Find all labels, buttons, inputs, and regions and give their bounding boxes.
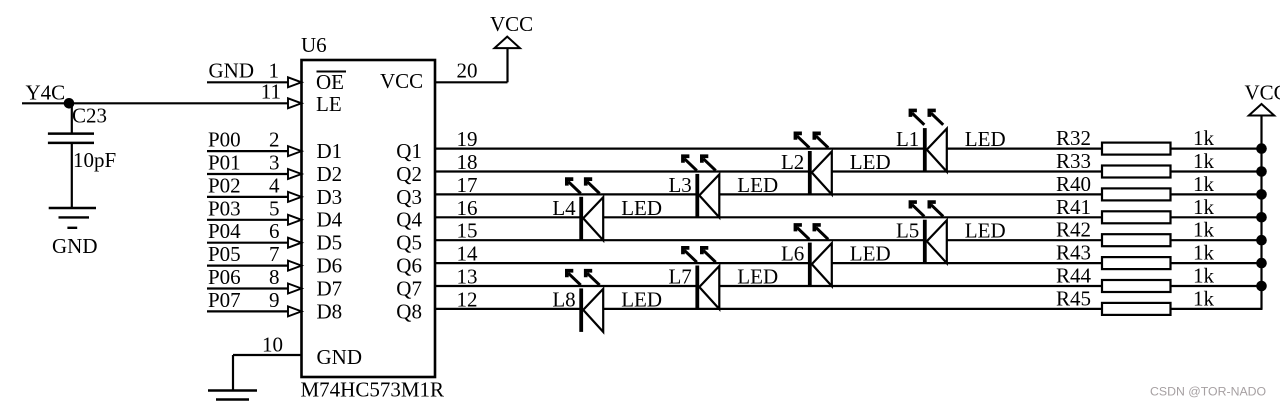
svg-text:17: 17 <box>457 173 478 197</box>
svg-text:1k: 1k <box>1193 172 1215 196</box>
svg-text:P05: P05 <box>208 242 241 266</box>
svg-text:R41: R41 <box>1056 195 1091 219</box>
svg-text:D6: D6 <box>317 254 343 278</box>
svg-text:VCC: VCC <box>1245 81 1280 105</box>
svg-text:1k: 1k <box>1193 286 1215 310</box>
svg-text:1k: 1k <box>1193 126 1215 150</box>
svg-text:7: 7 <box>269 242 280 266</box>
svg-text:11: 11 <box>261 80 281 104</box>
svg-text:15: 15 <box>457 219 478 243</box>
svg-text:U6: U6 <box>301 33 327 57</box>
svg-text:Q6: Q6 <box>396 254 422 278</box>
svg-text:LED: LED <box>965 127 1006 151</box>
svg-text:12: 12 <box>457 287 478 311</box>
svg-text:D2: D2 <box>317 162 343 186</box>
svg-text:GND: GND <box>52 234 98 258</box>
svg-text:R42: R42 <box>1056 218 1091 242</box>
svg-text:D1: D1 <box>317 139 343 163</box>
svg-text:L5: L5 <box>896 219 919 243</box>
svg-text:L1: L1 <box>896 127 919 151</box>
svg-text:R33: R33 <box>1056 149 1091 173</box>
svg-text:P00: P00 <box>208 128 241 152</box>
svg-text:LE: LE <box>316 92 342 116</box>
svg-text:5: 5 <box>269 196 280 220</box>
svg-text:Q5: Q5 <box>396 231 422 255</box>
svg-text:1k: 1k <box>1193 241 1215 265</box>
svg-text:L8: L8 <box>552 287 575 311</box>
svg-text:6: 6 <box>269 219 280 243</box>
svg-text:D5: D5 <box>317 231 343 255</box>
svg-text:GND: GND <box>317 345 363 369</box>
svg-text:C23: C23 <box>72 104 107 128</box>
svg-text:16: 16 <box>457 196 478 220</box>
svg-text:1k: 1k <box>1193 195 1215 219</box>
svg-text:D4: D4 <box>317 208 343 232</box>
svg-text:Y4C: Y4C <box>26 81 66 105</box>
svg-text:19: 19 <box>457 127 478 151</box>
svg-text:D8: D8 <box>317 299 343 323</box>
svg-text:LED: LED <box>850 150 891 174</box>
svg-text:R43: R43 <box>1056 241 1091 265</box>
svg-text:L2: L2 <box>781 150 804 174</box>
svg-text:L6: L6 <box>781 242 804 266</box>
svg-text:20: 20 <box>457 59 478 83</box>
svg-text:CSDN @TOR-NADO: CSDN @TOR-NADO <box>1150 385 1266 399</box>
svg-text:Q4: Q4 <box>396 208 422 232</box>
svg-text:LED: LED <box>850 242 891 266</box>
svg-text:R40: R40 <box>1056 172 1091 196</box>
svg-text:8: 8 <box>269 265 280 289</box>
svg-text:L3: L3 <box>668 173 691 197</box>
svg-text:1k: 1k <box>1193 149 1215 173</box>
svg-text:D7: D7 <box>317 276 343 300</box>
svg-text:Q2: Q2 <box>396 162 422 186</box>
svg-text:P04: P04 <box>208 219 241 243</box>
svg-text:LED: LED <box>621 196 662 220</box>
svg-text:Q8: Q8 <box>396 299 422 323</box>
svg-text:VCC: VCC <box>380 69 423 93</box>
svg-text:Q7: Q7 <box>396 276 422 300</box>
svg-text:L7: L7 <box>668 265 691 289</box>
svg-text:P07: P07 <box>208 288 241 312</box>
svg-text:P01: P01 <box>208 151 241 175</box>
svg-text:P02: P02 <box>208 173 241 197</box>
svg-text:P06: P06 <box>208 265 241 289</box>
svg-text:9: 9 <box>269 288 280 312</box>
svg-text:D3: D3 <box>317 185 343 209</box>
svg-text:2: 2 <box>269 128 280 152</box>
svg-text:1k: 1k <box>1193 218 1215 242</box>
svg-text:VCC: VCC <box>490 12 533 36</box>
svg-text:LED: LED <box>737 173 778 197</box>
svg-text:14: 14 <box>457 242 479 266</box>
svg-text:LED: LED <box>621 287 662 311</box>
svg-text:Q1: Q1 <box>396 139 422 163</box>
svg-text:13: 13 <box>457 265 478 289</box>
svg-text:R44: R44 <box>1056 264 1092 288</box>
svg-text:OE: OE <box>316 70 344 94</box>
svg-text:M74HC573M1R: M74HC573M1R <box>301 377 445 401</box>
svg-text:Q3: Q3 <box>396 185 422 209</box>
svg-text:18: 18 <box>457 150 478 174</box>
svg-text:1k: 1k <box>1193 264 1215 288</box>
svg-text:L4: L4 <box>552 196 576 220</box>
svg-text:10: 10 <box>262 333 283 357</box>
svg-text:P03: P03 <box>208 196 241 220</box>
svg-text:4: 4 <box>269 173 280 197</box>
svg-text:LED: LED <box>965 219 1006 243</box>
svg-text:LED: LED <box>737 265 778 289</box>
svg-text:R45: R45 <box>1056 286 1091 310</box>
svg-text:R32: R32 <box>1056 126 1091 150</box>
svg-text:3: 3 <box>269 151 280 175</box>
svg-text:10pF: 10pF <box>73 148 116 172</box>
svg-text:GND: GND <box>209 59 255 83</box>
